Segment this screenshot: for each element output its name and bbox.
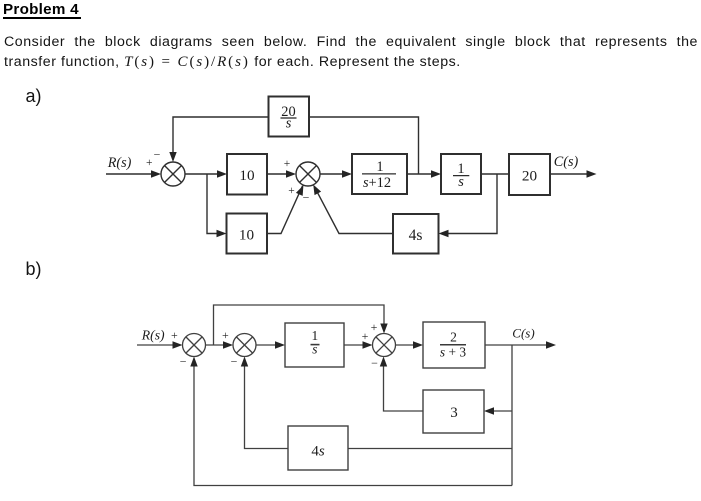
summing junction T2 (b) [233,334,256,357]
svg-text:2: 2 [450,330,457,345]
arrowhead into 4s from right (a) [439,230,449,237]
wire output C(s) with junction at x=512 (b) [485,344,546,346]
svg-text:−: − [303,191,310,205]
svg-text:4s: 4s [311,444,325,460]
arrowhead into 2/(s+3) (b) [413,341,423,348]
wire trunk into block 3 (b) [489,410,512,412]
arrowhead into 1/s (a) [431,170,441,177]
svg-text:20: 20 [522,168,538,185]
svg-text:−: − [180,355,187,369]
svg-text:−: − [154,148,161,162]
svg-text:s: s [286,116,292,132]
wire feedback up from node to block 20/s (a) [309,117,419,174]
svg-text:+: + [362,329,369,343]
wire S1 to block 10 (a) with branch junction [185,173,218,175]
summing junction S1 (a) [161,162,185,186]
arrowhead up into T1 outer loop (b) [190,357,197,367]
wire G1 to S2 (a) [267,173,288,175]
arrowhead into 1/s (b) [275,341,285,348]
wire tap down to 4s (a) [443,174,497,234]
svg-text:s: s [458,174,464,190]
svg-text:4s: 4s [409,227,423,244]
svg-text:+: + [222,328,229,342]
svg-text:+: + [284,158,291,170]
wire input R(s) (b) [137,344,174,346]
wire 1/s to T3 (b) [344,344,368,346]
svg-text:+: + [288,185,295,197]
arrowhead up into T2 from 4s (b) [241,357,248,367]
wire trunk into block 4s (b) [348,448,512,450]
wire 4s output diagonal into S2 minus (a) [314,186,393,233]
wire block 3 output up into T3 minus (b) [384,361,424,411]
arrowhead diagonal from lower 10 into S2 (a) [296,184,307,196]
svg-text:C(s): C(s) [554,154,579,170]
svg-text:10: 10 [239,167,255,184]
wire vertical feedback trunk (b) [511,345,513,486]
block G3 value 1/s (a) [441,154,481,194]
svg-text:+: + [171,328,178,342]
wire 20/s output down into S1 (a) [173,117,269,158]
svg-text:s + 3: s + 3 [440,345,466,360]
summing junction T1 (b) [183,334,206,357]
wire G2 to G3 with junction node at x=418.5 (a) [407,173,433,175]
block H3 value 3 (b) [423,390,484,433]
arrowhead into T1 (b) [173,341,183,348]
wire branch down to lower 10 (a) [207,174,218,234]
arrowhead into S2 (a) [286,170,296,177]
arrowhead into lower block 10 (a) [217,230,227,237]
wire T2 to block 1/s (b) [256,344,280,346]
arrowhead into T2 (b) [223,341,233,348]
svg-text:R(s): R(s) [141,328,165,344]
wire output C(s) (a) [550,173,587,175]
wire top feedforward from junction to T3 (b) [214,305,385,345]
wire outer feedback bottom into T1 minus (b) [194,361,512,486]
wire S2 to block 1/(s+12) (a) [320,173,344,175]
block G1 value 10 (a) [227,154,267,195]
svg-text:10: 10 [239,227,255,244]
arrowhead diagonal from 4s into S2 (a) [310,183,321,195]
arrowhead output C(s) (a) [587,170,597,177]
wire 4s output up into T2 minus (b) [245,361,289,449]
summing junction T3 (b) [373,334,396,357]
svg-text:+: + [371,320,378,334]
arrowhead output C(s) (b) [546,341,556,348]
arrowhead into block 3 (b) [484,407,494,414]
block G6 lower value 10 (a) [227,214,268,254]
block G4 value 20 (a) [509,154,550,195]
wire input R(s) (a) [106,173,152,175]
svg-text:s: s [312,341,317,356]
arrowhead into 1/(s+12) (a) [342,170,352,177]
block F1 value 1/s (b) [285,323,344,367]
svg-text:3: 3 [450,405,458,421]
wire T1 to T2 with junction at x=213.5 (b) [206,344,230,346]
block G2 value 1/(s+12) (a) [352,154,407,194]
wire G3 to G4 with junction node at x=497 (a) [481,173,509,175]
block F2 value 2/(s+3) (b) [423,322,485,368]
arrowhead up into T3 from 3 (b) [380,357,387,367]
svg-text:−: − [371,356,378,370]
arrowhead into T3 left (b) [363,341,373,348]
summing junction S2 (a) [296,162,320,186]
svg-text:s+12: s+12 [363,175,391,191]
block H1 value 20/s (a) [269,97,310,137]
svg-text:C(s): C(s) [512,326,534,341]
svg-text:−: − [231,355,238,369]
arrowhead top into T3 (b) [380,324,387,334]
svg-text:R(s): R(s) [107,155,132,171]
arrowhead into block 10 (a) [217,170,227,177]
svg-text:1: 1 [376,159,383,175]
block H2 value 4s (a) [393,214,439,254]
block H4 value 4s (b) [288,426,348,470]
svg-text:+: + [146,157,153,169]
arrowhead down into S1 from 20/s (a) [169,152,176,162]
wire lower 10 output diagonal into S2 plus (a) [267,186,303,234]
arrowhead into S1 (a) [151,170,161,177]
wire T3 to block 2/(s+3) (b) [396,344,419,346]
